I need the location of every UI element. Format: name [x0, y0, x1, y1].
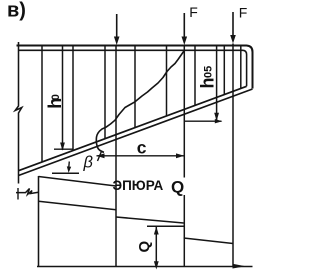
- Q diagram left edge: [38, 176, 40, 267]
- beam bottom outer incline: [19, 89, 253, 176]
- force arrow F3: [232, 12, 234, 38]
- beta angle arrow: [68, 162, 71, 168]
- projection line under F2: [183, 46, 185, 178]
- stirrup 3: [104, 46, 106, 139]
- h05 bottom ref line: [185, 120, 222, 122]
- dimension h0 line: [62, 46, 64, 150]
- beam bottom inner incline: [19, 86, 247, 170]
- Q diagram step 2: [116, 217, 184, 223]
- stirrup 2: [72, 46, 74, 151]
- stirrup 8: [223, 46, 225, 95]
- dimension h05 line: [216, 46, 218, 120]
- Q value label: [136, 241, 153, 253]
- svg-text:h: h: [198, 78, 218, 89]
- Q value dimension tick: [147, 225, 184, 227]
- dimension c line: [97, 155, 185, 157]
- Q diagram upper envelope: [39, 177, 117, 187]
- svg-text:05: 05: [203, 66, 215, 78]
- stirrup 6: [166, 46, 168, 116]
- h0 label: [45, 98, 65, 109]
- svg-text:β: β: [83, 154, 94, 172]
- svg-text:F: F: [189, 4, 198, 20]
- svg-text:Q: Q: [171, 178, 184, 197]
- Q diagram step 1: [39, 201, 117, 210]
- cut break line: [16, 189, 39, 195]
- stirrup 9: [240, 46, 242, 89]
- Q diagram step 3: [184, 238, 233, 244]
- beam left edge (cut): [15, 42, 22, 184]
- h0 end tick: [54, 148, 73, 150]
- svg-text:в): в): [7, 0, 26, 22]
- svg-text:ЭПЮРА: ЭПЮРА: [113, 178, 164, 193]
- inclined crack: [96, 51, 184, 153]
- svg-text:c: c: [137, 138, 147, 158]
- stirrup 4: [134, 46, 136, 128]
- svg-text:0: 0: [50, 94, 62, 100]
- c left tick: [98, 151, 102, 162]
- h05 label: [198, 78, 218, 89]
- projection line under F1: [115, 46, 117, 267]
- beam top outer chord: [17, 46, 253, 89]
- stirrup 7: [194, 46, 196, 106]
- baseline wedge: [233, 264, 246, 269]
- svg-text:F: F: [239, 5, 248, 21]
- force arrow F2: [183, 13, 185, 39]
- force arrow F1 (unlabeled): [116, 14, 118, 39]
- stirrup 1: [41, 46, 43, 162]
- Q value dimension line: [155, 226, 157, 266]
- beam top inner chord: [19, 50, 247, 86]
- Q diagram baseline: [37, 266, 253, 268]
- beta horizontal ref line: [52, 172, 79, 174]
- projection line under F3: [232, 44, 234, 267]
- svg-text:Q: Q: [136, 241, 153, 253]
- cut end tick: [17, 188, 19, 200]
